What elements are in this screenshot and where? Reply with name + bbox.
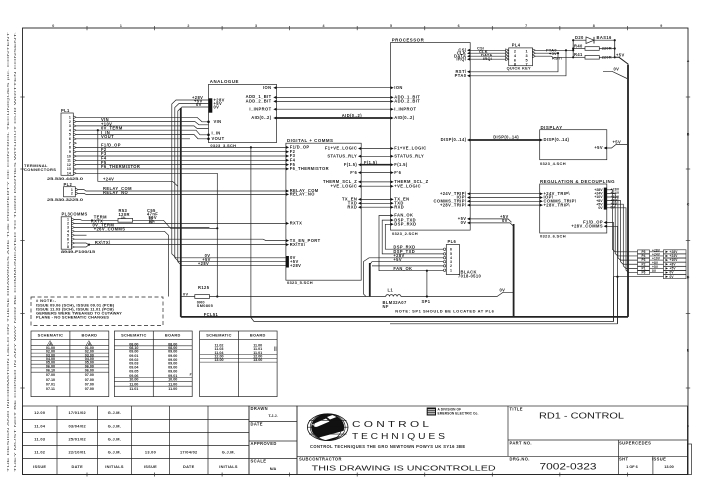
svg-text:0323_5.SCH: 0323_5.SCH (287, 280, 313, 285)
svg-text:I_INPROT: I_INPROT (249, 106, 271, 111)
svg-text:2: 2 (71, 192, 73, 196)
wire RXD (361, 206, 392, 208)
revision table (23, 406, 250, 475)
wire IRQ\ (470, 58, 509, 60)
pin PTA0 (PROCESSOR right) (467, 74, 470, 77)
wire F'6 (361, 172, 392, 174)
wire 0V_TERM (76, 126, 208, 128)
svg-text:N/A: N/A (270, 467, 277, 471)
svg-text:SCALE: SCALE (251, 458, 267, 463)
svg-text:07.01: 07.01 (46, 382, 55, 386)
wire PTA0 (536, 49, 574, 51)
resistor R53 (118, 218, 133, 222)
wire +24V_TRIP\ (470, 193, 540, 195)
svg-text:5: 5 (526, 58, 528, 62)
wire SP1 drop (426, 271, 428, 297)
svg-text:F(1.5): F(1.5) (344, 162, 358, 167)
svg-text:17/01/02: 17/01/02 (68, 410, 86, 415)
junction SP1 drop (426, 270, 428, 272)
svg-text:SM0805: SM0805 (197, 303, 214, 308)
svg-text:DISP(0..14): DISP(0..14) (493, 134, 519, 139)
svg-text:DISP(0..14): DISP(0..14) (544, 137, 570, 142)
issue table 1 revision triangles (47, 341, 53, 346)
svg-text:0V: 0V (500, 288, 506, 293)
svg-text:INITIALS: INITIALS (219, 464, 238, 469)
svg-text:RST\: RST\ (552, 56, 563, 61)
svg-text:07.00: 07.00 (46, 373, 55, 377)
svg-text:07.00: 07.00 (85, 387, 94, 391)
wire F2 (76, 151, 286, 153)
wire F1/D_OP (76, 146, 286, 148)
pin +24V_TRIP\ (PROCESSOR right) (467, 192, 470, 195)
svg-text:220R: 220R (602, 54, 612, 59)
svg-text:0323_3.SCH: 0323_3.SCH (210, 143, 236, 148)
svg-text:EMERSON ELECTRIC Co.: EMERSON ELECTRIC Co. (438, 411, 479, 415)
svg-text:COMMS: COMMS (70, 212, 88, 217)
wire +28V feeder (172, 100, 286, 258)
power bar REGULATION (604, 188, 607, 210)
pin ION (PROCESSOR left) (391, 86, 394, 89)
svg-text:07.00: 07.00 (85, 378, 94, 382)
svg-text:0V: 0V (196, 102, 202, 107)
svg-text:14: 14 (67, 172, 71, 176)
wire node tap down (216, 228, 218, 296)
wire +5V quickkey (536, 52, 559, 54)
svg-text:G.J.M.: G.J.M. (108, 436, 121, 441)
resistor R125 (195, 295, 210, 299)
svg-text:PL1: PL1 (61, 108, 70, 113)
wire STATUS_RLY (361, 155, 392, 157)
svg-text:I_INPROT: I_INPROT (394, 106, 416, 111)
svg-text:11.00: 11.00 (168, 382, 177, 386)
pin +5V (DISPLAY) (604, 147, 607, 150)
pin STATUS_RLY (DIGITAL right) (358, 155, 361, 158)
wire +5V net top right (615, 57, 628, 66)
pin VIN (207, 121, 210, 124)
svg-text:11.02: 11.02 (34, 449, 46, 454)
svg-text:F6_THERMISTOR: F6_THERMISTOR (101, 164, 140, 169)
svg-text:25.530.3225.0: 25.530.3225.0 (47, 197, 83, 202)
wire +10V (76, 122, 208, 125)
pin I_INPROT (273, 108, 276, 111)
wire RST\ (536, 56, 574, 57)
pin F5 (DIGITAL) (286, 163, 289, 166)
svg-text:+28V_TRIP\: +28V_TRIP\ (544, 202, 571, 207)
svg-text:STATUS_RLY: STATUS_RLY (394, 154, 424, 159)
svg-text:DISPLAY: DISPLAY (541, 125, 563, 130)
svg-text:RXTX: RXTX (290, 221, 303, 226)
svg-text:REGULATION & DECOUPLING: REGULATION & DECOUPLING (540, 179, 615, 184)
rail pullup right (614, 40, 616, 57)
svg-text:ADD_2_BIT: ADD_2_BIT (246, 99, 272, 104)
pin RXD (DIGITAL right) (358, 206, 361, 209)
svg-text:BOARD: BOARD (250, 333, 266, 338)
pin +28V_COMMS (REGULATION) (604, 225, 607, 228)
wire THERM_SCL_Z (361, 181, 392, 183)
wire RELAY_NO (78, 193, 286, 194)
svg-text:0323_4.SCH: 0323_4.SCH (540, 161, 566, 166)
wire I_IN (76, 130, 208, 135)
svg-text:CONTROL TECHNIQUES THE GRO NE: CONTROL TECHNIQUES THE GRO NEWTOWN POWYS… (310, 444, 466, 449)
svg-text:FAN_OK: FAN_OK (393, 266, 412, 271)
wire +24V (98, 130, 178, 186)
svg-text:SP1: SP1 (422, 299, 431, 304)
svg-text:PL4: PL4 (512, 43, 521, 48)
svg-text:DISP(0..14): DISP(0..14) (441, 137, 467, 142)
pin THERM_SCL_Z (PROCESSOR left) (391, 180, 394, 183)
svg-text:BAS16: BAS16 (597, 35, 613, 40)
svg-text:1: 1 (450, 268, 452, 272)
pin +VE_LOGIC (DIGITAL right) (358, 185, 361, 188)
svg-text:10.00: 10.00 (129, 378, 138, 382)
pin I_IN (207, 134, 210, 137)
svg-text:PL2: PL2 (64, 182, 73, 187)
svg-text:G.J.M.: G.J.M. (222, 449, 235, 454)
wire DSP_RXD (385, 224, 446, 249)
wire RX\TX\ (75, 243, 286, 245)
svg-text:0V: 0V (461, 220, 467, 225)
wire pin14 to node (76, 173, 217, 228)
svg-text:25/01/02: 25/01/02 (68, 436, 86, 441)
svg-text:7: 7 (525, 24, 527, 28)
svg-text:G.J.M.: G.J.M. (108, 423, 121, 428)
svg-text:+5V: +5V (616, 52, 625, 57)
wire +8V output (607, 201, 638, 265)
svg-text:F'6: F'6 (350, 170, 357, 175)
0V heavy drop left (369, 263, 371, 297)
wire RXTX (75, 222, 286, 224)
svg-text:ISSUE: ISSUE (652, 457, 666, 462)
svg-text:||: || (274, 346, 277, 351)
pin ADD_1_BIT (273, 96, 276, 99)
svg-text:2: 2 (514, 50, 516, 54)
svg-text:06.00: 06.00 (85, 368, 94, 372)
svg-text:11.04: 11.04 (34, 423, 46, 428)
pin +VE_LOGIC (PROCESSOR left) (391, 185, 394, 188)
svg-text:+28V: +28V (290, 263, 301, 268)
pin F'6 (DIGITAL right) (358, 171, 361, 174)
svg-text:13.00: 13.00 (214, 358, 223, 362)
svg-text:ADD_2_BIT: ADD_2_BIT (394, 99, 420, 104)
svg-text:BOARD: BOARD (81, 333, 97, 338)
svg-text:DIGITAL + COMMS: DIGITAL + COMMS (287, 138, 334, 143)
pin F(1.5) (DIGITAL right) (358, 163, 361, 166)
wire 0V top right (603, 71, 627, 78)
wire TX_EN (361, 198, 392, 200)
svg-text:9: 9 (660, 24, 662, 28)
wire +5V feeder (175, 104, 286, 262)
svg-text:0V: 0V (183, 291, 188, 296)
svg-text:DRG.NO.: DRG.NO. (510, 457, 530, 462)
pin F2 (DIGITAL) (286, 150, 289, 153)
svg-text:4: 4 (323, 24, 325, 28)
svg-text:11.01: 11.01 (129, 387, 138, 391)
wire F1/D_OP to net (607, 223, 614, 322)
wire FCL51 tap (251, 147, 614, 321)
bus AID(0..2) (277, 117, 392, 119)
wire F3 (76, 155, 286, 157)
svg-text:1 OF 6: 1 OF 6 (626, 465, 638, 469)
wire +VE_LOGIC (361, 185, 392, 187)
svg-text:03/04/02: 03/04/02 (68, 423, 86, 428)
resistor R40 (573, 48, 585, 50)
svg-text:F'6: F'6 (394, 170, 401, 175)
svg-text:SHT: SHT (619, 457, 628, 462)
pin ADD_1_BIT (PROCESSOR left) (391, 96, 394, 99)
rail pullup left (572, 40, 574, 57)
svg-text:THIS DRAWING IS UNCONTROLLED: THIS DRAWING IS UNCONTROLLED (312, 463, 496, 472)
svg-text:APPROVED: APPROVED (251, 441, 277, 446)
svg-text:I_IN: I_IN (212, 130, 221, 135)
svg-text:ISSUE: ISSUE (144, 464, 157, 469)
0V rail horizontal (181, 296, 195, 298)
svg-text:D: D (687, 275, 690, 279)
pin DISP(0..14) (DISPLAY) (540, 139, 543, 142)
pin +28V_TRIP\ (PROCESSOR right) (467, 204, 470, 207)
svg-text:+5V: +5V (393, 257, 402, 262)
pin F1+VE_LOGIC (PROCESSOR left) (391, 147, 394, 150)
wire R53 to C55 (133, 219, 149, 221)
issue table 2 (114, 331, 192, 397)
svg-text:09.05: 09.05 (129, 369, 138, 373)
svg-text:PLANE - NO SCHEMATIC CHANGES: PLANE - NO SCHEMATIC CHANGES (36, 315, 109, 320)
svg-text:07.11: 07.11 (46, 387, 55, 391)
svg-text:RX\TX\: RX\TX\ (290, 242, 306, 247)
svg-text:ISSUE: ISSUE (33, 464, 46, 469)
svg-text:8949-F100/15: 8949-F100/15 (61, 249, 96, 254)
svg-text:C: C (687, 202, 690, 206)
svg-text:07.00: 07.00 (85, 382, 94, 386)
svg-text:FCL51: FCL51 (204, 312, 219, 317)
wire F4 (76, 159, 286, 161)
pin I_INPROT (PROCESSOR left) (391, 108, 394, 111)
wire TXD (361, 202, 392, 204)
pin RELAY_NO (DIGITAL) (286, 193, 289, 196)
svg-text:11.00: 11.00 (129, 382, 138, 386)
svg-text:RD1 - CONTROL: RD1 - CONTROL (539, 411, 625, 420)
wire C55 to node (152, 220, 217, 228)
svg-text:13.00: 13.00 (253, 358, 262, 362)
svg-text:F(1.5): F(1.5) (364, 160, 378, 165)
pin ADD_2_BIT (273, 100, 276, 103)
wire F6_THERMISTOR (76, 168, 286, 170)
terminal P4 +24V (638, 254, 650, 258)
0V heavy drop (513, 224, 515, 317)
svg-text:D20: D20 (575, 35, 584, 40)
svg-text:T E C H N I Q U E S: T E C H N I Q U E S (352, 432, 445, 441)
pin ION (273, 86, 276, 89)
svg-text:DSP_RXD: DSP_RXD (393, 244, 415, 249)
wire COMMS_TRIP\ (470, 200, 540, 202)
wire +28V_COMMS bottom (390, 323, 618, 325)
svg-text:+5V: +5V (613, 140, 622, 145)
pin TXD (DIGITAL right) (358, 202, 361, 205)
pin 0V (PROCESSOR right) (467, 221, 470, 224)
wire PL1 pin6 (76, 138, 190, 140)
svg-text:+24V: +24V (103, 176, 114, 181)
svg-text:DSP_RXD: DSP_RXD (394, 222, 416, 227)
pin RELAY_COM (DIGITAL) (286, 190, 289, 193)
svg-text:+26V_COMMS: +26V_COMMS (94, 227, 126, 232)
svg-text:1: 1 (120, 24, 122, 28)
drawn column (249, 406, 297, 475)
svg-text:09.00: 09.00 (168, 369, 177, 373)
svg-text:QUICK KEY: QUICK KEY (507, 66, 531, 71)
wire 0V_TERM comms (75, 226, 217, 229)
pin DATA (PROCESSOR right) (467, 55, 470, 58)
wire I_INPROT (277, 108, 392, 110)
title block (297, 406, 687, 475)
issue table 1 (31, 331, 109, 397)
power bar ANALOGUE (209, 98, 213, 112)
pin RST\ (PROCESSOR right) (467, 70, 470, 73)
svg-text:0V: 0V (214, 104, 220, 109)
svg-text:22/10/01: 22/10/01 (68, 449, 86, 454)
wire 0V output (607, 208, 638, 273)
wire +10V output (607, 197, 638, 260)
svg-text:DATE: DATE (71, 464, 83, 469)
ferrite SP1 (426, 295, 428, 297)
pin IOP\ (REGULATION) (540, 196, 543, 199)
note box (31, 297, 163, 326)
svg-text:B: B (687, 132, 690, 136)
pin F1+VE_LOGIC (DIGITAL right) (358, 147, 361, 150)
wire PL3 pin8 (75, 245, 90, 247)
pin AID(0..2) (PROCESSOR left) (391, 117, 394, 120)
logo CONTROL TECHNIQUES globe (311, 414, 344, 440)
svg-text:PTA0: PTA0 (455, 73, 467, 78)
terminal P2 +8V (638, 262, 650, 266)
pin THERM_SCL_Z (DIGITAL right) (358, 180, 361, 183)
svg-text:F1+VE_LOGIC: F1+VE_LOGIC (394, 146, 426, 151)
0V rail to L1 (210, 296, 386, 298)
svg-text:NF: NF (383, 304, 389, 309)
svg-text:BOARD: BOARD (165, 333, 181, 338)
wire +26V_COMMS (75, 231, 169, 296)
svg-text:0323_2.SCH: 0323_2.SCH (392, 231, 418, 236)
svg-text:3: 3 (255, 24, 257, 28)
svg-text:CONNECTORS: CONNECTORS (24, 167, 56, 172)
svg-text:09.00: 09.00 (168, 350, 177, 354)
pin FAN_OK (PROCESSOR left) (391, 214, 394, 217)
wire VIN (76, 117, 208, 122)
pin CS\ (PROCESSOR right) (467, 49, 470, 52)
junction R53/C55 node (216, 227, 218, 229)
svg-text:DATE: DATE (183, 464, 195, 469)
wire F1+VE_LOGIC (361, 148, 392, 150)
wire 0V processor (470, 223, 513, 226)
wire CS\ (470, 49, 509, 51)
svg-text:F1+VE_LOGIC: F1+VE_LOGIC (325, 146, 357, 151)
svg-text:F(1.5): F(1.5) (394, 162, 408, 167)
wire +5V PL6 (370, 262, 447, 265)
svg-text:0V: 0V (502, 218, 508, 223)
pin RX\TX\ (DIGITAL) (286, 243, 289, 246)
wire FAN_OK (379, 216, 446, 271)
wire VOUT (76, 135, 208, 139)
svg-text:0: 0 (52, 24, 54, 28)
svg-text:10.00: 10.00 (168, 378, 177, 382)
terminal P1 +5V (638, 267, 650, 271)
svg-text:RXD: RXD (394, 204, 404, 209)
pin RXD (PROCESSOR left) (391, 206, 394, 209)
svg-text:SUBCONTRACTOR: SUBCONTRACTOR (299, 457, 342, 462)
pin ADD_2_BIT (PROCESSOR left) (391, 100, 394, 103)
svg-text:VOUT: VOUT (212, 136, 225, 141)
wire +5V output (607, 204, 638, 268)
wire ADD_1_BIT (277, 96, 392, 98)
svg-text:09.00: 09.00 (129, 350, 138, 354)
pin F4 (DIGITAL) (286, 159, 289, 162)
wire DATA (470, 55, 509, 57)
bus F(1.5) (361, 164, 392, 166)
0V heavy rail (180, 108, 182, 317)
svg-text:R40: R40 (574, 43, 583, 48)
svg-text:VIN: VIN (214, 119, 222, 124)
svg-text:06.10: 06.10 (46, 368, 55, 372)
wire 0V net vertical (617, 277, 619, 324)
svg-text:+5V: +5V (594, 145, 603, 150)
power bar DIGITAL (286, 256, 289, 268)
svg-text:17/04/02: 17/04/02 (180, 449, 198, 454)
terminal P3 +10V (638, 258, 650, 262)
svg-text:SCHEMATIC: SCHEMATIC (206, 333, 232, 338)
svg-text:6: 6 (458, 24, 460, 28)
wire +28V output (607, 190, 638, 252)
svg-text:G.J.M.: G.J.M. (108, 449, 121, 454)
svg-text:IRQ\: IRQ\ (456, 56, 466, 61)
svg-text:IRQ\: IRQ\ (483, 56, 493, 61)
svg-text:1: 1 (526, 50, 528, 54)
pin AID bus (273, 117, 276, 120)
svg-text:25.530.4425.0: 25.530.4425.0 (47, 176, 83, 181)
svg-text:DATE: DATE (251, 422, 263, 427)
pin F1/D_OP (DIGITAL) (286, 146, 289, 149)
junction +24V tap (97, 129, 99, 131)
svg-text:11.03: 11.03 (34, 436, 46, 441)
svg-text:SCHEMATIC: SCHEMATIC (121, 333, 147, 338)
svg-text:THEY MUST NOT BE COPIED IN ANY: THEY MUST NOT BE COPIED IN ANY WAY NOR B… (13, 32, 17, 472)
wire +28V_COMMS to net (607, 226, 618, 323)
svg-text:ION: ION (263, 85, 271, 90)
pin TX_EN_PORT (DIGITAL) (286, 239, 289, 242)
svg-text:7018-0510: 7018-0510 (458, 273, 482, 278)
svg-text:A: A (687, 59, 690, 63)
pin F(1.5) (PROCESSOR left) (391, 163, 394, 166)
svg-text:6: 6 (514, 58, 516, 62)
wire +5V display (607, 145, 627, 149)
wire TX_EN_PORT (75, 239, 286, 240)
svg-text:0V: 0V (611, 206, 616, 210)
0V rail from L1 (401, 292, 514, 296)
wire ADD_2_BIT (277, 100, 392, 102)
bus DISP(0..14) (470, 139, 540, 141)
capacitor C55 (149, 217, 151, 224)
pin IRQ\ (PROCESSOR right) (467, 58, 470, 61)
svg-text:RELAY_NO: RELAY_NO (290, 192, 316, 197)
svg-text:PART NO.: PART NO. (510, 441, 532, 446)
wire IOP\ (470, 197, 540, 199)
svg-text:TITLE: TITLE (510, 407, 523, 412)
pin F3 (DIGITAL) (286, 155, 289, 158)
svg-text:12.00: 12.00 (34, 410, 45, 415)
svg-text:+28V_TRIP\: +28V_TRIP\ (440, 202, 467, 207)
terminal 0V bottom (614, 276, 664, 278)
svg-text:G.J.M.: G.J.M. (108, 410, 121, 415)
pin F6_THERMISTOR (DIGITAL) (286, 167, 289, 170)
svg-text:2: 2 (187, 24, 189, 28)
pin RXTX (DIGITAL) (286, 222, 289, 225)
